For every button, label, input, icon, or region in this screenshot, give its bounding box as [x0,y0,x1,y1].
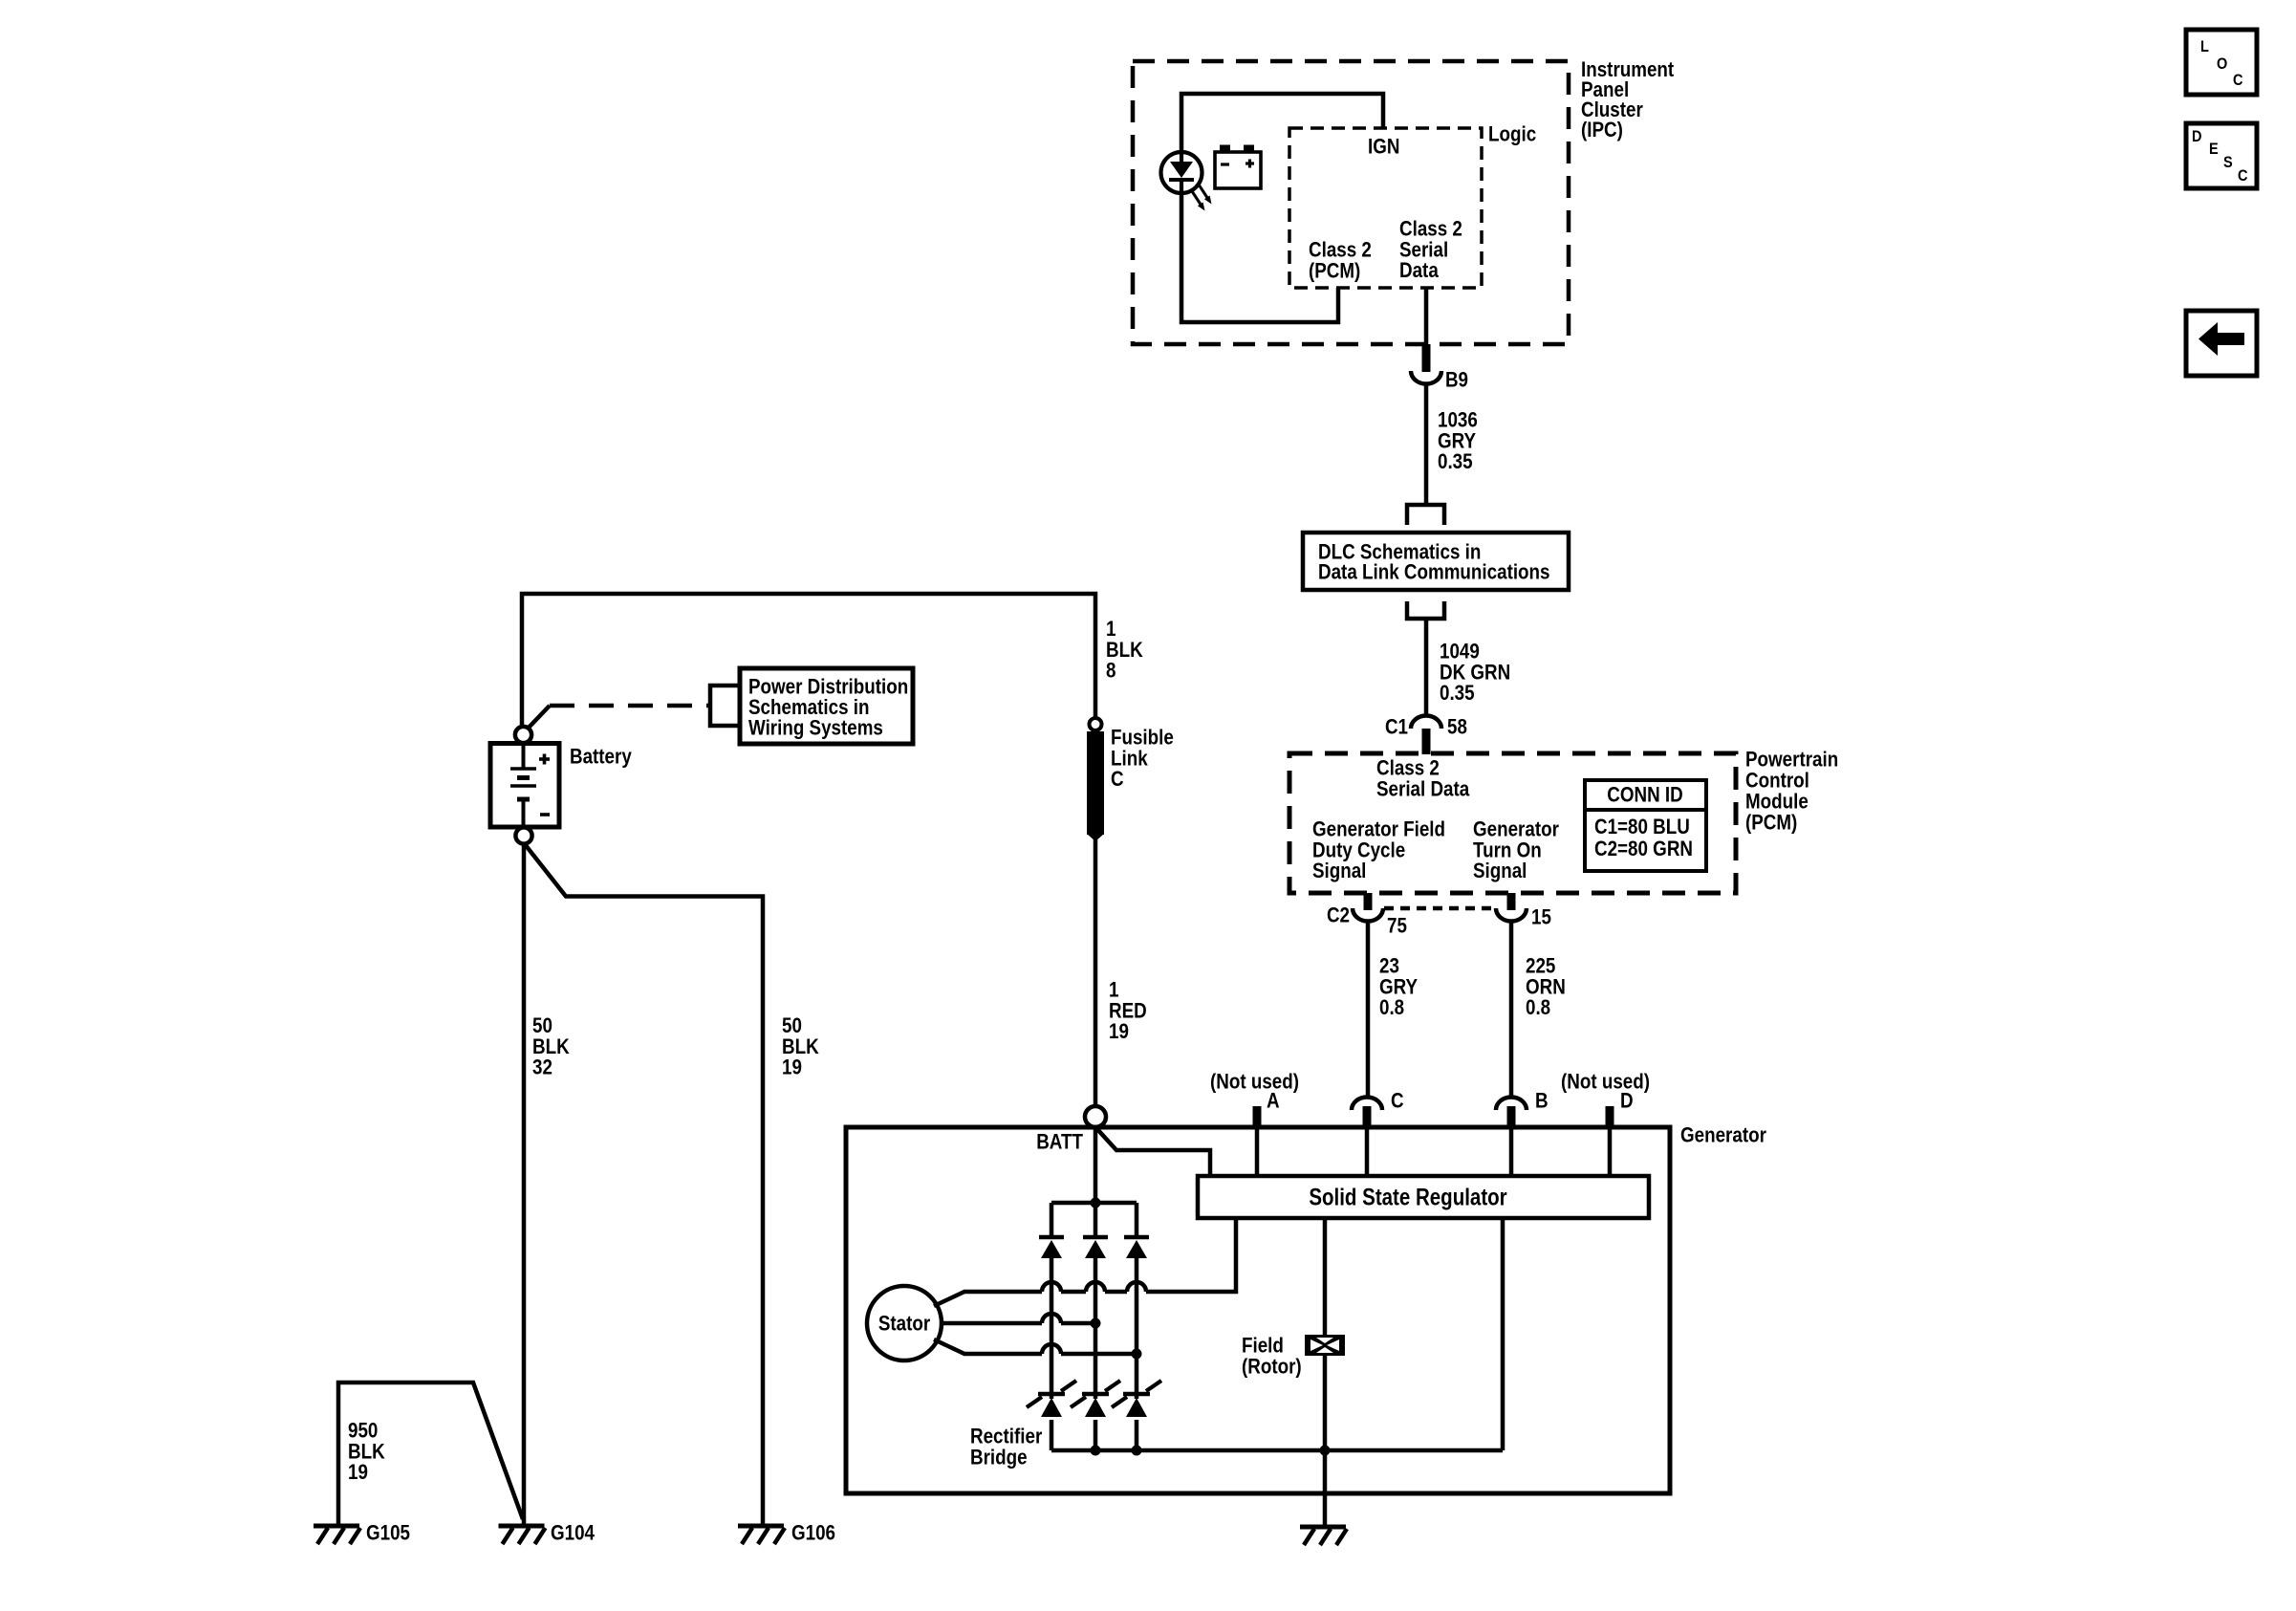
terminal B pin [1507,1106,1516,1127]
Rectifier Bridge label [970,1425,1043,1469]
svg-text:C1: C1 [1385,715,1408,739]
Generator box [846,1127,1670,1493]
battery telltale icon [1215,145,1261,189]
svg-text:(Not used): (Not used) [1561,1070,1650,1094]
connector C arc at generator [1352,1098,1382,1111]
Generator Turn On Signal label [1473,817,1559,883]
Field (Rotor) label [1242,1334,1302,1379]
label 950 BLK 19 [348,1419,385,1485]
svg-text:0.8: 0.8 [1526,995,1550,1019]
wire 950 BLK 19 G105 to G104 [338,1382,523,1526]
fusible link C [1087,718,1104,841]
svg-text:(IPC): (IPC) [1581,118,1623,142]
label 50 BLK 32 [532,1013,570,1079]
Generator Field Duty Cycle Signal label [1312,817,1445,883]
svg-text:S: S [2223,153,2233,171]
svg-text:Battery: Battery [570,745,632,769]
svg-text:Signal: Signal [1473,859,1527,882]
wire 1 RED 19 [1094,839,1098,1106]
connector pin B9 [1422,344,1431,372]
wire: terminal A to regulator [1255,1129,1260,1176]
LOC nav box [2186,30,2257,95]
connector B9 arc [1411,371,1441,384]
wire 225 ORN 0.8 [1509,921,1514,1098]
Solid State Regulator box [1198,1176,1649,1218]
back-arrow nav box [2186,311,2257,376]
C2 connector dashed line [1384,906,1495,911]
wire: battery positive feed (top run) [522,594,1095,725]
svg-text:L: L [2200,37,2209,55]
svg-text:C: C [1391,1089,1404,1113]
Logic dashed box [1289,128,1482,288]
junction dots bottom bus [1091,1446,1331,1456]
indicator lamp light arrows [1192,185,1212,211]
Class 2 (PCM) label [1309,238,1372,283]
svg-text:Wiring Systems: Wiring Systems [748,715,883,739]
svg-text:0.35: 0.35 [1438,449,1473,473]
svg-text:Solid State Regulator: Solid State Regulator [1309,1185,1507,1211]
svg-text:IGN: IGN [1368,135,1399,159]
stator phase 2 wire [940,1314,1101,1329]
svg-text:(Rotor): (Rotor) [1242,1354,1302,1378]
connector pin 58 into PCM [1422,729,1431,754]
svg-text:G104: G104 [551,1521,596,1545]
wire: Class 2 serial data out of Logic [1424,288,1429,344]
connector B arc at generator [1496,1098,1527,1111]
svg-text:C: C [1111,767,1124,791]
dashed wire to Power Distribution [550,704,708,708]
svg-text:19: 19 [348,1460,368,1484]
rectifier diode column 1 lower (avalanche) [1027,1381,1076,1450]
label 1 RED 19 [1109,978,1147,1044]
connector C1 arc [1411,716,1441,729]
Class 2 Serial Data label (IPC) [1399,217,1462,283]
Powertrain Control Module (PCM) dashed box [1289,753,1736,893]
svg-text:Data Link Communications: Data Link Communications [1318,560,1550,584]
svg-text:(PCM): (PCM) [1745,811,1797,835]
BATT terminal ring [1085,1106,1106,1127]
wire 50 BLK 19 to G106 [525,844,763,1526]
svg-text:B9: B9 [1445,368,1468,392]
label 50 BLK 19 [782,1013,819,1079]
generator ground [1300,1525,1346,1530]
svg-text:A: A [1267,1089,1280,1113]
svg-text:Logic: Logic [1488,122,1536,146]
bridge top bus [1051,1201,1137,1206]
svg-text:Stator: Stator [878,1312,931,1336]
Battery B1 [490,743,559,827]
power distribution connector bracket [710,686,738,726]
wire: regulator to field [1323,1218,1328,1336]
ground G106 [738,1524,784,1529]
wire: terminal D to regulator [1608,1129,1613,1176]
bridge bottom bus [1051,1448,1503,1453]
rectifier diode column 2 upper [1083,1203,1108,1399]
svg-text:Generator: Generator [1680,1123,1766,1147]
svg-text:E: E [2209,140,2219,158]
inline connector above DLC box [1407,505,1444,525]
svg-text:0.8: 0.8 [1379,995,1404,1019]
inline connector below DLC box [1407,601,1444,619]
svg-text:D: D [2192,127,2202,145]
svg-text:Signal: Signal [1312,859,1366,882]
wire: BATT jog to regulator [1096,1128,1210,1176]
wire: terminal B to regulator [1509,1129,1514,1176]
wire: IPC internal loop top [1181,94,1383,152]
wire: BATT into bridge [1094,1127,1098,1203]
wire: regulator right leg [1501,1218,1505,1450]
label 23 GRY 0.8 [1379,954,1418,1020]
indicator lamp circle [1161,152,1202,193]
rectifier diode column 2 lower (avalanche) [1071,1381,1120,1450]
label 1036 GRY 0.35 [1438,408,1478,474]
ground G104 [499,1524,545,1529]
connector 15 arc [1496,908,1527,922]
svg-text:15: 15 [1531,905,1551,929]
rectifier diode column 3 upper [1124,1203,1149,1399]
svg-text:BATT: BATT [1036,1130,1083,1154]
svg-text:D: D [1620,1089,1634,1113]
Fusible Link C label [1111,726,1174,792]
svg-text:C2: C2 [1327,903,1350,927]
battery positive terminal ring [515,727,531,743]
Instrument Panel Cluster (IPC) dashed box [1133,61,1569,344]
rectifier diode column 1 upper [1039,1203,1064,1399]
terminal D pin [1606,1106,1614,1127]
svg-text:(PCM): (PCM) [1309,258,1360,282]
terminal A pin [1253,1106,1262,1127]
wire 50 BLK 32 to G104 [522,844,527,1526]
wire 1049 DK GRN 0.35 [1424,619,1429,715]
battery negative terminal ring [515,827,531,843]
svg-text:75: 75 [1387,914,1407,938]
svg-text:C2=80 GRN: C2=80 GRN [1594,837,1693,860]
stator phase 3 wire [934,1339,1142,1360]
CONN ID table [1585,780,1706,871]
Power Distribution label [748,675,908,740]
connector pin 15 [1507,893,1516,910]
wire: lamp to Logic (PCM) return [1181,193,1338,322]
Power Distribution Schematics box [740,668,913,744]
svg-text:C1=80 BLU: C1=80 BLU [1594,815,1690,838]
wire: terminal C to regulator [1365,1129,1370,1176]
rectifier diode column 3 lower (avalanche) [1112,1381,1161,1450]
label 1 BLK 8 [1106,617,1143,683]
svg-text:C: C [2238,166,2248,185]
svg-text:8: 8 [1106,659,1116,683]
svg-text:G105: G105 [366,1521,410,1545]
svg-text:19: 19 [782,1056,802,1079]
svg-text:(Not used): (Not used) [1210,1070,1299,1094]
terminal C pin [1363,1106,1372,1127]
IPC label [1581,57,1675,142]
svg-text:B: B [1535,1089,1549,1113]
svg-text:58: 58 [1447,715,1467,739]
label 225 ORN 0.8 [1526,954,1566,1020]
svg-text:Data: Data [1399,258,1439,282]
DLC Schematics box [1303,533,1569,590]
Stator circle [867,1286,942,1361]
svg-text:0.35: 0.35 [1440,681,1475,705]
connector C2 arc [1353,908,1383,922]
wire 1036 GRY 0.35 [1424,384,1429,505]
svg-text:CONN ID: CONN ID [1607,783,1682,807]
wire: field to ground [1323,1355,1328,1527]
Field (Rotor) coil symbol [1305,1335,1345,1356]
wire 23 GRY 0.8 [1366,921,1371,1098]
DESC nav box [2186,123,2257,188]
DLC Schematics label [1318,540,1550,584]
svg-text:Serial Data: Serial Data [1376,776,1470,800]
svg-text:19: 19 [1109,1019,1129,1043]
connector pin 75 (C2) [1364,893,1373,910]
wire: positive terminal to power distribution (diagonal) [528,706,550,729]
PCM label [1745,748,1838,835]
svg-text:G106: G106 [791,1521,835,1545]
svg-text:Bridge: Bridge [970,1445,1028,1469]
label 1049 DK GRN 0.35 [1440,640,1510,706]
stator phase 1 wire [934,1218,1236,1306]
Class 2 Serial Data label (PCM) [1376,756,1470,801]
svg-text:32: 32 [532,1056,552,1079]
indicator lamp LED diode [1169,152,1194,193]
svg-text:C: C [2233,71,2243,89]
junction dot BATT bus [1091,1198,1101,1208]
ground G105 [314,1524,359,1529]
svg-text:O: O [2217,54,2227,73]
